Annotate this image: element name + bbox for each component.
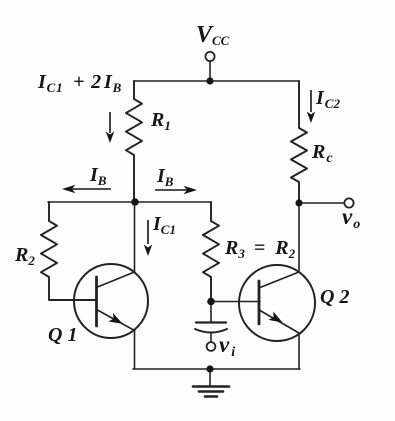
svg-text:R2: R2	[14, 244, 35, 268]
svg-text:Q 2: Q 2	[320, 286, 349, 308]
svg-text:VCC: VCC	[196, 22, 230, 48]
svg-text:Q 1: Q 1	[48, 324, 77, 346]
svg-text:IC1 + 2IB: IC1 + 2IB	[37, 71, 122, 95]
svg-text:R3 = R2: R3 = R2	[224, 237, 296, 261]
svg-text:IB: IB	[156, 165, 174, 189]
svg-text:vo: vo	[342, 204, 360, 232]
svg-text:IC2: IC2	[315, 87, 340, 111]
svg-text:R1: R1	[150, 109, 171, 133]
svg-text:IB: IB	[89, 164, 107, 188]
svg-text:vi: vi	[219, 332, 235, 360]
svg-text:Rc: Rc	[311, 141, 333, 166]
svg-text:IC1: IC1	[152, 213, 176, 237]
